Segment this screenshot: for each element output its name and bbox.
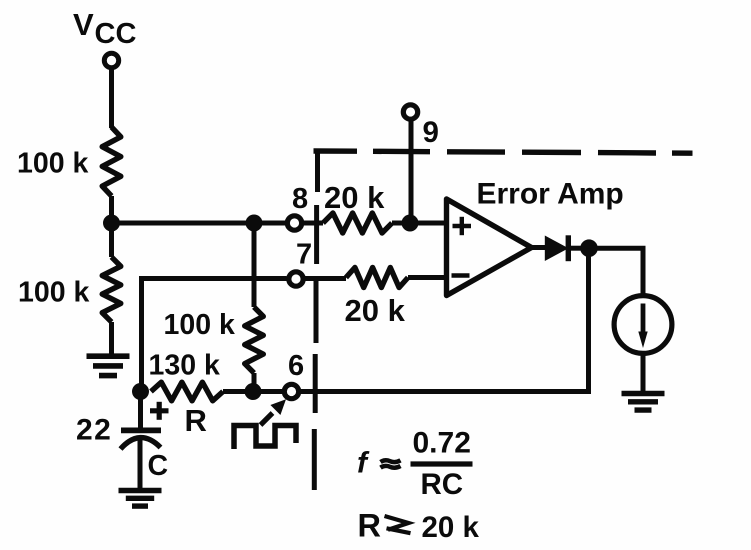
resistor 100k lower bbox=[102, 257, 121, 322]
pin 9 terminal bbox=[403, 105, 417, 119]
wire 20k lower to op-amp - bbox=[408, 275, 447, 280]
svg-text:20 k: 20 k bbox=[422, 511, 480, 544]
svg-text:7: 7 bbox=[296, 239, 312, 271]
wire node to current source bbox=[589, 248, 643, 294]
resistor R 130k bbox=[151, 382, 223, 401]
svg-text:22: 22 bbox=[76, 414, 112, 447]
wire feedback output node to pin 6 bbox=[300, 248, 589, 391]
capacitor plus sign bbox=[150, 402, 169, 420]
square wave symbol bbox=[234, 426, 296, 450]
svg-text:8: 8 bbox=[292, 183, 308, 215]
svg-text:0.72: 0.72 bbox=[413, 427, 471, 460]
junction divider node bbox=[103, 215, 120, 232]
pin 7 terminal bbox=[289, 272, 303, 286]
op-amp - input sign bbox=[452, 273, 470, 278]
diode D1 bbox=[545, 236, 569, 262]
current source I1 bbox=[614, 296, 672, 354]
wire R1 to R2 bbox=[109, 196, 114, 257]
svg-text:Error Amp: Error Amp bbox=[477, 178, 624, 211]
wire current source to ground bbox=[641, 353, 646, 393]
wire pin 9 down to + input wire bbox=[409, 120, 414, 223]
resistor 20k lower bbox=[346, 268, 408, 288]
resistor 20k upper bbox=[323, 213, 392, 233]
wire node R to capacitor bbox=[138, 392, 143, 431]
svg-text:100 k: 100 k bbox=[164, 309, 235, 341]
svg-text:V: V bbox=[73, 7, 94, 42]
>= symbol bbox=[385, 516, 411, 533]
junction at 100k column top bbox=[246, 215, 263, 232]
resistor 100k vertical bbox=[245, 307, 264, 373]
svg-text:6: 6 bbox=[288, 350, 304, 382]
capacitor C top plate bbox=[121, 428, 161, 434]
svg-text:RC: RC bbox=[421, 468, 464, 501]
approx symbol bbox=[381, 460, 401, 467]
svg-text:R: R bbox=[358, 508, 381, 544]
ground under capacitor bbox=[119, 488, 162, 493]
wire junction down to 100k vertical resistor bbox=[252, 223, 257, 307]
wire divider node to pin 8 bbox=[112, 221, 286, 226]
op-amp + input sign bbox=[453, 217, 472, 235]
svg-text:R: R bbox=[185, 403, 207, 438]
svg-text:CC: CC bbox=[95, 18, 137, 50]
wire VCC to R1 bbox=[109, 68, 114, 128]
ground under current source bbox=[622, 391, 665, 396]
svg-text:100 k: 100 k bbox=[18, 277, 89, 309]
wire pin 7 to node R (left loop) bbox=[142, 279, 287, 392]
resistor 100k upper bbox=[102, 127, 121, 196]
wire R2 to ground bbox=[109, 322, 114, 356]
IC boundary dashed vertical bbox=[315, 150, 320, 192]
wire 100k vertical to node R bbox=[252, 373, 257, 392]
wire 20k to op-amp + bbox=[392, 221, 447, 226]
junction pin9 / 20k bbox=[402, 215, 419, 232]
wire pin 8 to 20k bbox=[302, 221, 323, 226]
pin 6 terminal bbox=[284, 384, 298, 398]
VCC terminal bbox=[104, 53, 118, 67]
wire capacitor to ground bbox=[138, 438, 143, 489]
arrow pointing to pin 6 bbox=[261, 413, 273, 425]
pin 8 terminal bbox=[287, 216, 301, 230]
current source arrow bbox=[641, 304, 646, 335]
svg-text:9: 9 bbox=[423, 116, 439, 149]
ground under divider bbox=[87, 353, 130, 359]
fraction bar bbox=[411, 461, 473, 466]
svg-text:100 k: 100 k bbox=[17, 148, 88, 180]
junction node R left bbox=[132, 383, 149, 400]
wire op-amp to diode bbox=[532, 245, 547, 250]
output node junction bbox=[580, 239, 598, 257]
IC boundary dashed horizontal bbox=[314, 148, 358, 154]
svg-text:C: C bbox=[148, 450, 169, 482]
svg-text:20 k: 20 k bbox=[324, 180, 385, 215]
svg-text:130 k: 130 k bbox=[149, 350, 220, 382]
wire pin 7 to 20k lower bbox=[303, 276, 347, 281]
capacitor C bottom plate (curved) bbox=[121, 438, 161, 449]
svg-text:20 k: 20 k bbox=[345, 293, 406, 328]
op-amp U1 Error Amp bbox=[447, 199, 532, 296]
junction node R right bbox=[245, 383, 262, 400]
